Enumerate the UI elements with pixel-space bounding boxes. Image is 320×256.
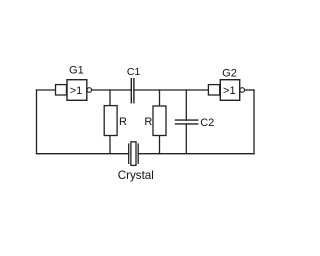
wire: C2 bottom lead — [185, 124, 187, 154]
crystal right plate — [137, 143, 139, 164]
capacitor C1 right plate — [133, 78, 135, 103]
wire: left rail to G1 input — [37, 89, 56, 91]
capacitor C1 left plate — [130, 78, 132, 103]
gate G2 body — [220, 80, 239, 101]
svg-text:R: R — [119, 116, 127, 128]
wire: R1 top lead — [109, 90, 111, 106]
gate G1 body — [67, 80, 87, 101]
wire: left vertical rail — [36, 90, 38, 154]
wire: R2 bottom lead — [159, 136, 161, 154]
svg-text:G1: G1 — [69, 65, 84, 77]
wire: C1 to G2 input — [134, 89, 208, 91]
gate G2 input box — [208, 85, 219, 95]
svg-text:>1: >1 — [223, 85, 236, 97]
wire: R2 top lead — [159, 90, 161, 106]
gate G1 output bubble — [87, 88, 92, 93]
capacitor C2 top plate — [175, 119, 199, 121]
wire: G2 output to right rail — [244, 89, 254, 91]
wire: G1 output to C1 — [92, 89, 132, 91]
gate G1 input box — [56, 85, 67, 95]
gate G2 output bubble — [240, 88, 245, 93]
svg-text:C1: C1 — [127, 66, 141, 78]
resistor R2 body — [153, 106, 166, 136]
wire: C2 top lead — [185, 90, 187, 120]
crystal left plate — [128, 143, 130, 164]
wire: bottom rail right of crystal — [138, 153, 254, 155]
wire: right vertical rail — [253, 90, 255, 154]
svg-text:R: R — [144, 116, 152, 128]
crystal body — [131, 142, 136, 166]
wire: bottom rail left of crystal — [37, 153, 129, 155]
resistor R1 body — [104, 106, 117, 136]
capacitor C2 bottom plate — [175, 123, 199, 125]
svg-text:C2: C2 — [200, 117, 214, 129]
svg-text:Crystal: Crystal — [118, 169, 154, 182]
wire: R1 bottom lead — [109, 136, 111, 154]
svg-text:G2: G2 — [222, 68, 237, 80]
svg-text:>1: >1 — [70, 85, 83, 97]
